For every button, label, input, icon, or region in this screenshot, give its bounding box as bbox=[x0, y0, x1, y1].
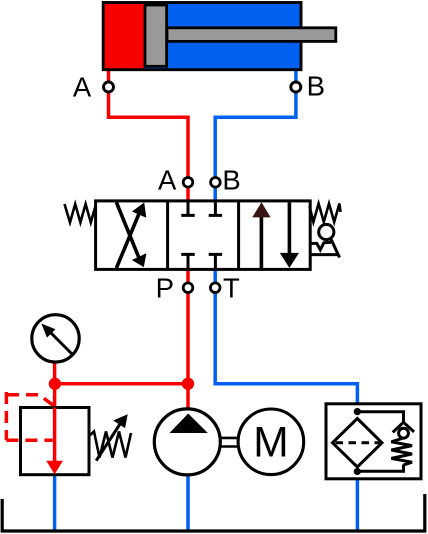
pressure gauge bbox=[32, 315, 79, 362]
node dot filter top bbox=[354, 408, 361, 415]
svg-text:A: A bbox=[73, 71, 92, 102]
spring right of valve bbox=[310, 204, 341, 223]
valve left cell crossed arrow 2 (up-right) bbox=[116, 203, 146, 269]
filter bypass branch bbox=[357, 412, 414, 471]
port circle valve P bbox=[183, 283, 193, 293]
relief valve internal red arrow bbox=[46, 408, 63, 475]
motor shaft bbox=[220, 438, 238, 447]
filter body bbox=[326, 404, 421, 479]
svg-text:T: T bbox=[223, 273, 240, 304]
valve right cell down arrow bbox=[280, 202, 299, 268]
pump bbox=[154, 409, 220, 475]
valve divider right bbox=[237, 201, 240, 270]
wire: blue from cylinder port B to valve port B bbox=[215, 69, 296, 202]
port circle cylinder B bbox=[291, 82, 301, 92]
svg-text:B: B bbox=[222, 165, 240, 196]
filter element dashed line bbox=[336, 441, 380, 444]
wire: blue filter outlet to tank bbox=[356, 472, 360, 530]
svg-text:A: A bbox=[158, 165, 177, 196]
cylinder piston bbox=[145, 5, 167, 66]
svg-text:B: B bbox=[307, 70, 325, 101]
relief valve adjustment arrow bbox=[96, 414, 128, 461]
relief valve body bbox=[21, 408, 90, 475]
wire: red into relief valve bbox=[53, 384, 57, 409]
wire: blue relief valve outlet to tank bbox=[53, 474, 57, 530]
wire: blue tank line from valve T to filter bbox=[215, 268, 357, 412]
node dot filter bottom bbox=[354, 468, 361, 475]
valve left cell crossed arrow 1 (down-right) bbox=[116, 202, 146, 267]
spring left of valve bbox=[65, 204, 96, 223]
motor bbox=[238, 409, 304, 475]
junction dot red at gauge branch bbox=[49, 378, 61, 390]
wire: red pressure line from valve P down to pump bbox=[186, 268, 190, 409]
relief valve spring bbox=[89, 432, 131, 458]
wire: blue pump suction to tank bbox=[186, 474, 190, 530]
tank bbox=[2, 494, 425, 531]
relief valve pilot line (dashed red) bbox=[6, 392, 53, 440]
wire: red from cylinder port A to valve port A bbox=[109, 69, 189, 202]
cylinder body bbox=[103, 3, 301, 70]
filter diamond bbox=[333, 419, 383, 468]
port circle cylinder A bbox=[104, 82, 114, 92]
port circle valve T bbox=[210, 283, 220, 293]
valve right cell up arrow bbox=[252, 202, 270, 268]
svg-text:M: M bbox=[253, 419, 288, 466]
junction dot red at P branch bbox=[182, 378, 194, 390]
svg-text:P: P bbox=[156, 273, 174, 304]
valve divider left bbox=[166, 201, 169, 270]
wire: red horizontal branch to gauge/relief bbox=[55, 382, 188, 386]
valve body: 4/3 directional valve outer box bbox=[96, 201, 311, 270]
port circle valve B bbox=[211, 178, 221, 188]
valve center cell blocked port T symbols bbox=[181, 202, 222, 268]
wire: red gauge stem bbox=[53, 361, 57, 384]
cylinder rod bbox=[167, 28, 336, 42]
lever/roller actuator right of valve bbox=[310, 224, 340, 257]
port circle valve A bbox=[183, 178, 193, 188]
